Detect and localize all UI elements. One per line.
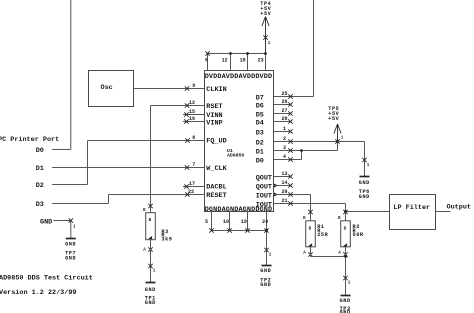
- pin 5 X: [209, 228, 213, 232]
- power +5V TP5: [328, 106, 343, 144]
- pin 9 X: [185, 86, 189, 90]
- node junction TP5: [336, 140, 339, 143]
- svg-text:4: 4: [283, 154, 286, 160]
- pin 13 X: [288, 174, 292, 178]
- pin 26 stub: [274, 104, 292, 106]
- svg-text:1: 1: [73, 224, 76, 229]
- wire LP filter output: [436, 211, 451, 213]
- svg-text:24: 24: [262, 219, 268, 225]
- svg-text:1: 1: [269, 253, 272, 258]
- pin 10 X: [227, 228, 231, 232]
- pin 26 X: [288, 102, 292, 106]
- node junction pin 23 top: [264, 52, 267, 55]
- svg-text:5: 5: [205, 219, 208, 225]
- svg-text:RESET: RESET: [206, 192, 226, 200]
- svg-text:B: B: [149, 218, 152, 223]
- svg-text:GND: GND: [340, 309, 351, 313]
- svg-text:Output: Output: [447, 204, 471, 212]
- wire D1 pin 3: [274, 142, 338, 151]
- svg-text:D2: D2: [256, 140, 264, 148]
- svg-text:GND: GND: [40, 218, 52, 226]
- oscillator box Osc: [89, 71, 134, 107]
- pin 14 stub QOUT: [274, 185, 292, 187]
- svg-text:Version 1.2 22/3/99: Version 1.2 22/3/99: [0, 289, 77, 297]
- pin 4 X: [288, 157, 292, 161]
- svg-text:16: 16: [189, 116, 195, 122]
- svg-text:50R: 50R: [353, 232, 364, 238]
- wire top supply rail: [208, 54, 266, 71]
- svg-text:22: 22: [188, 189, 194, 195]
- node junction R2 LP filter: [344, 210, 347, 213]
- svg-text:D3: D3: [256, 130, 264, 138]
- pin 24 X: [264, 228, 268, 232]
- pin 12 X: [185, 103, 189, 107]
- resistor R3: [143, 204, 172, 253]
- test point TP6 pin X: [362, 158, 366, 162]
- ground TP7: [65, 239, 76, 262]
- svg-text:D0: D0: [36, 147, 44, 155]
- test point TP3 pin X: [343, 276, 347, 280]
- svg-text:1: 1: [348, 281, 351, 286]
- node junction ground bus: [265, 229, 268, 232]
- svg-text:21: 21: [282, 198, 288, 204]
- pin 22 X: [185, 192, 189, 196]
- pin 17 X: [184, 184, 188, 188]
- svg-text:D1: D1: [36, 165, 44, 173]
- svg-text:2: 2: [283, 136, 286, 142]
- svg-text:RSET: RSET: [206, 103, 222, 111]
- wire D0 pin 4: [274, 151, 302, 160]
- svg-text:DVDDAVDDAVDDDVDD: DVDDAVDDAVDDDVDD: [205, 73, 273, 81]
- svg-text:GND: GND: [145, 300, 156, 306]
- svg-text:1: 1: [367, 163, 370, 168]
- svg-text:D7: D7: [256, 95, 264, 103]
- svg-text:27: 27: [282, 108, 288, 114]
- svg-text:GND: GND: [260, 268, 271, 274]
- node junction R2 bottom: [344, 255, 347, 258]
- svg-text:1: 1: [153, 269, 156, 274]
- ground TP3: [340, 296, 351, 313]
- svg-text:D1: D1: [256, 149, 264, 157]
- wire IOUT pin 21 to R2 and LP filter: [274, 204, 390, 221]
- pin 7 X: [185, 165, 189, 169]
- svg-text:3: 3: [283, 145, 286, 151]
- svg-text:6: 6: [205, 58, 208, 64]
- svg-text:AD9850: AD9850: [227, 153, 244, 159]
- svg-text:7: 7: [192, 162, 195, 168]
- svg-text:CLKIN: CLKIN: [206, 86, 226, 94]
- pin 21 X: [288, 201, 292, 205]
- wire R1 R2 bottom bus to TP3: [311, 247, 346, 296]
- test point TP2 pin X: [264, 248, 268, 252]
- svg-text:GND: GND: [260, 282, 271, 288]
- svg-text:1: 1: [268, 41, 271, 46]
- pin 20 X: [288, 192, 292, 196]
- svg-text:Osc: Osc: [101, 84, 113, 92]
- pin marker IOUT 20 triangle: [274, 193, 278, 197]
- wire IC bottom ground bus: [212, 212, 267, 266]
- node junction pin 18 top: [246, 52, 249, 55]
- ground TP1: [145, 283, 156, 306]
- wire R3 bottom to TP1 ground: [150, 240, 152, 283]
- pin 16 X: [184, 119, 188, 123]
- svg-text:VINP: VINP: [206, 119, 222, 127]
- svg-text:D0: D0: [256, 158, 264, 166]
- pin marker QOUT 14 triangle: [274, 184, 278, 188]
- svg-text:14: 14: [282, 180, 288, 186]
- svg-text:17: 17: [189, 181, 195, 187]
- power +5V TP4: [260, 1, 271, 53]
- pin 6 X: [205, 51, 209, 55]
- svg-text:B: B: [344, 226, 347, 231]
- svg-text:GND: GND: [359, 194, 370, 200]
- wire net D3 to RESET pin 22: [52, 195, 205, 204]
- wire DACBL stub pin 17: [183, 186, 205, 188]
- svg-text:GND: GND: [145, 287, 156, 293]
- svg-text:+5V: +5V: [260, 11, 271, 17]
- svg-text:26: 26: [282, 99, 288, 105]
- svg-text:GND: GND: [65, 256, 76, 262]
- pin 28 stub: [274, 121, 292, 123]
- wire Osc to CLKIN pin 9: [134, 88, 205, 90]
- svg-text:QOUT: QOUT: [256, 175, 272, 183]
- svg-text:W_CLK: W_CLK: [206, 165, 227, 173]
- wire net D1 to W_CLK pin 7: [52, 167, 205, 169]
- svg-text:GND: GND: [65, 242, 76, 248]
- pin 1 X: [288, 129, 292, 133]
- pin 27 stub: [274, 113, 292, 115]
- svg-text:12: 12: [222, 58, 228, 64]
- svg-text:GND: GND: [340, 298, 351, 304]
- svg-text:23: 23: [258, 58, 264, 64]
- wire TP5 junction to TP6 ground: [338, 142, 365, 177]
- wire net D2 to FQ_UD pin 8: [52, 141, 205, 185]
- pin 14 X: [288, 183, 292, 187]
- pin 27 X: [288, 111, 292, 115]
- svg-text:D2: D2: [36, 182, 44, 190]
- svg-text:19: 19: [241, 219, 247, 225]
- svg-text:8: 8: [192, 135, 195, 141]
- pin 19 X: [245, 228, 249, 232]
- svg-text:13: 13: [282, 171, 288, 177]
- svg-text:D4: D4: [256, 120, 264, 128]
- wire VINN stub pin 15: [183, 114, 205, 116]
- svg-text:+5V: +5V: [328, 116, 339, 122]
- resistor R2: [338, 210, 364, 257]
- test point TP1 pin X: [148, 264, 152, 268]
- svg-text:DACBL: DACBL: [206, 184, 226, 192]
- svg-text:9: 9: [192, 83, 195, 89]
- svg-text:AD9850 DDS Test Circuit: AD9850 DDS Test Circuit: [0, 274, 93, 282]
- node junction D0 D1: [300, 149, 303, 152]
- svg-text:QOUT: QOUT: [256, 184, 272, 192]
- op-amp U1 AD9850 IC body: [205, 71, 274, 215]
- wire top net to U1 D7 pin 25: [274, 0, 314, 97]
- wire IOUT pin 20 to R1: [274, 195, 311, 221]
- node junction pin 12 top: [229, 52, 232, 55]
- svg-text:PC Printer Port: PC Printer Port: [0, 136, 59, 144]
- svg-text:D5: D5: [256, 112, 264, 120]
- svg-text:25R: 25R: [317, 232, 328, 238]
- svg-text:A: A: [338, 251, 341, 256]
- pin 2 X: [288, 139, 292, 143]
- pin 15 X: [184, 112, 188, 116]
- svg-text:D6: D6: [256, 103, 264, 111]
- wire D2 pin 2 to +5V TP5 junction: [274, 141, 338, 143]
- svg-text:1: 1: [283, 126, 286, 132]
- svg-text:FQ_UD: FQ_UD: [206, 138, 226, 146]
- test point TP7 pin X: [69, 218, 73, 222]
- svg-text:D3: D3: [36, 201, 44, 209]
- wire GND label to TP7: [54, 221, 71, 239]
- svg-text:12: 12: [189, 100, 195, 106]
- svg-text:IOUT: IOUT: [256, 193, 272, 201]
- wire RSET pin 12 to R3: [151, 106, 205, 213]
- pin 8 X: [185, 138, 189, 142]
- ground TP2: [260, 266, 271, 288]
- pin 3 X: [288, 148, 292, 152]
- svg-text:LP Filter: LP Filter: [393, 204, 430, 212]
- svg-text:28: 28: [282, 116, 288, 122]
- svg-text:15: 15: [189, 109, 195, 115]
- filter box LP Filter: [390, 195, 436, 230]
- svg-text:B: B: [309, 226, 312, 231]
- ground TP6: [359, 177, 370, 201]
- resistor R1: [303, 210, 329, 257]
- pin 28 X: [288, 119, 292, 123]
- svg-text:A: A: [303, 251, 306, 256]
- svg-text:A: A: [143, 247, 146, 252]
- svg-text:20: 20: [282, 189, 288, 195]
- svg-text:18: 18: [240, 58, 246, 64]
- svg-text:1: 1: [341, 136, 344, 141]
- pin 1 stub: [274, 131, 292, 133]
- svg-text:GND: GND: [359, 180, 370, 186]
- pin 13 stub QOUT: [274, 176, 292, 178]
- wire net D0 to top rail: [52, 0, 71, 150]
- svg-text:25: 25: [282, 91, 288, 97]
- svg-text:10: 10: [223, 219, 229, 225]
- svg-text:3k9: 3k9: [161, 237, 172, 243]
- svg-text:DGNDAGNDAGNDDGND: DGNDAGNDAGNDDGND: [205, 206, 273, 214]
- pin 25 X: [288, 94, 292, 98]
- wire VINP stub pin 16: [183, 121, 205, 123]
